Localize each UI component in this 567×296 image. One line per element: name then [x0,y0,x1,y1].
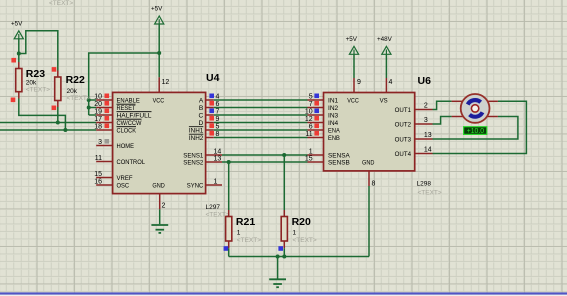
junction R23/CLOCK [63,128,67,132]
svg-text:OUT4: OUT4 [395,151,412,158]
svg-text:INH2: INH2 [189,135,204,142]
U6 reference label [418,75,432,87]
svg-text:SENSB: SENSB [328,160,350,167]
U4 pin 20 stub [96,107,112,109]
svg-text:<TEXT>: <TEXT> [67,95,91,102]
junction RESET [87,106,91,110]
junction R22/CW [56,121,60,125]
svg-text:2: 2 [424,103,428,110]
R23 TEXT label [26,87,50,94]
U4 VCC pin 12 stub [158,77,160,92]
U4 pin 17 state indicator [105,116,110,121]
U4 pin 11 stub [96,161,112,163]
svg-text:CLOCK: CLOCK [117,128,137,135]
svg-text:VCC: VCC [153,98,165,105]
wire OUT1 to motor [433,101,452,109]
bottom window border [0,292,567,296]
U4 pin number 6 [216,101,220,108]
U6 label OUT3 [395,137,412,144]
svg-text:OUT3: OUT3 [395,137,412,144]
wire C-IN3 [214,114,308,116]
R23 pin indicator bottom [11,98,16,103]
svg-text:R20: R20 [292,216,311,228]
U4 pin 3 state indicator [105,139,110,144]
svg-text:20: 20 [94,101,102,108]
U4 label SENS1 [183,153,203,160]
svg-text:1: 1 [214,178,218,185]
svg-text:19: 19 [94,108,102,115]
U6 right pin 2 stub [415,109,433,111]
svg-text:6: 6 [309,123,313,130]
U4 right pin 14 stub [206,154,222,156]
U4 label VCC [153,98,165,105]
resistor R21 [226,217,232,242]
U4 right pin 9 stub [206,122,214,124]
clipped TEXT label top edge [49,0,73,7]
U6 pin number 6 [309,123,313,130]
svg-text:12: 12 [162,79,170,86]
wire INH1-ENA [214,129,308,131]
svg-text:17: 17 [94,116,102,123]
U4 reference label [206,72,220,84]
U4 pin number 20 [94,101,102,108]
U6 pin 11 stub [308,137,324,139]
wire OUT4 to motor [433,101,527,153]
U6 pin 7 state indicator [314,101,319,106]
svg-text:INH1: INH1 [189,128,204,135]
svg-text:11: 11 [305,131,312,138]
svg-text:+5V: +5V [151,6,163,13]
U6 right pin 14 stub [415,153,433,155]
U6 pin 12 state indicator [314,116,319,121]
U4 pin 15 stub [96,177,112,179]
svg-text:1: 1 [237,230,241,237]
U4 label ENABLE [117,98,141,105]
svg-text:GND: GND [152,183,165,190]
U4 label D [199,120,204,127]
motor pins [452,101,498,116]
svg-text:HOME: HOME [117,143,135,150]
U4 right pin 8 stub [206,137,214,139]
U6 label IN3 [328,113,339,120]
U6 label IN1 [328,98,339,105]
svg-text:1: 1 [309,148,313,155]
U4 part type L297 [206,204,221,211]
svg-text:OSC: OSC [117,183,130,190]
U4 pin 19 stub [96,114,112,116]
U4 label A [199,98,204,105]
U4 pin number 2 [162,203,166,210]
U4 right pin 6 stub [206,107,214,109]
svg-text:13: 13 [424,132,432,139]
U4 label RESET [117,104,136,112]
wire SENS1-SENSA [222,154,308,156]
svg-text:A: A [199,98,204,105]
svg-text:OUT1: OUT1 [395,107,412,114]
U4 right pin 13 stub [206,161,222,163]
U4 right pin 4 stub [206,99,214,101]
ground (main) [269,279,286,287]
U6 TEXT label [418,189,442,196]
U4 pin number 1 [214,178,218,185]
svg-text:2: 2 [162,203,166,210]
resistor R23 pins [18,62,20,99]
wire R21 to ground bus [228,248,230,256]
R23 value 20k [26,80,37,87]
U4 pin number 10 [94,93,102,100]
svg-text:9: 9 [357,79,361,86]
R22 label [66,74,85,86]
junction VCC branch [157,51,161,55]
svg-text:C: C [199,113,204,120]
U4 pin number 4 [216,93,220,100]
wire D-IN4 [214,122,308,124]
U4 pin 18 stub [96,129,112,131]
U4 label GND [152,183,165,190]
svg-text:R23: R23 [26,68,45,80]
U6 label VCC [347,98,359,105]
svg-text:+5V: +5V [346,36,358,43]
wire stub HALF/FULL row [89,114,97,116]
svg-text:R21: R21 [236,216,255,228]
U6 pin number 7 [309,101,313,108]
U4 pin 17 stub [96,122,112,124]
svg-text:+48V: +48V [377,36,393,43]
svg-text:15: 15 [94,171,102,178]
U6 label SENSA [328,153,350,160]
junction ground stem [276,255,280,259]
svg-text:11: 11 [95,155,102,162]
U4 pin number 3 [98,139,102,146]
wire +48V to U6 VS [385,55,387,78]
U4 pin number 14 [214,148,222,155]
U4 right pin 7 stub [206,114,214,116]
svg-text:+10.0: +10.0 [467,128,484,135]
U6 label OUT2 [395,122,412,129]
wire VCC branch to ENABLE/RESET/HALF-FULL [89,53,160,115]
wire +5V to U4 VCC pin 12 [158,24,160,77]
wire INH2-ENB [214,137,308,139]
wire R22 bottom to CW net [57,107,59,123]
svg-text:VS: VS [380,98,389,105]
svg-text:10: 10 [94,93,102,100]
wire R23 bottom to CLOCK net [19,99,66,131]
U6 label IN4 [328,120,339,127]
resistor R23 [16,69,22,92]
svg-text:IN4: IN4 [328,120,339,127]
U4 pin 10 state indicator [105,94,110,99]
U6 pin 10 stub [308,114,324,116]
U4 label SYNC [187,183,204,190]
svg-text:VCC: VCC [347,98,359,105]
U4 right pin 5 stub [206,129,214,131]
svg-text:SENS1: SENS1 [183,153,203,160]
U4 pin 8 state indicator [209,131,214,136]
svg-text:14: 14 [214,148,222,155]
svg-text:U4: U4 [206,72,220,84]
wire +5V to R22 top [19,31,58,71]
junction R20/ground bus [282,255,286,259]
U4 pin 4 state indicator [209,94,214,99]
U4 pin 16 stub [96,184,112,186]
svg-text:VREF: VREF [117,175,133,182]
motor rpm display [464,127,487,136]
wire SENS2 to R21 [228,162,230,210]
U6 VS pin 4 stub [385,78,387,93]
U6 label OUT1 [395,107,412,114]
R21 TEXT label [237,237,261,244]
svg-text:16: 16 [94,178,102,185]
wire +5V to U6 VCC [353,55,355,78]
U4 pin 10 stub [96,99,112,101]
U4 pin number 7 [216,108,220,115]
U4 pin 19 state indicator [105,109,110,114]
svg-text:R22: R22 [66,74,85,86]
U6 label OUT4 [395,151,412,158]
U4 label INH2 [189,134,204,142]
svg-text:3: 3 [98,139,102,146]
svg-text:<TEXT>: <TEXT> [237,237,261,244]
U4 label C [199,113,204,120]
power +48V (U6 VS) [377,36,393,55]
op-amp U6 body (L298) [324,93,415,171]
U6 pin 5 stub [308,99,324,101]
svg-text:ENB: ENB [328,135,340,142]
R21 value 1 [237,230,241,237]
U4 GND pin 2 stub [159,194,161,210]
svg-text:15: 15 [305,155,313,162]
U6 pin 15 stub [308,161,324,163]
U6 label ENA [328,128,340,135]
svg-text:L297: L297 [206,204,221,211]
U6 part type L298 [417,180,432,187]
U6 pin 10 state indicator [314,109,319,114]
U6 pin 1 stub [308,154,324,156]
U4 pin number 15 [94,171,102,178]
wire CW/CCW net from left edge [0,122,96,124]
U4 pin number 11 [95,155,102,162]
U6 pin number 9 [357,79,361,86]
U6 pin number 1 [309,148,313,155]
svg-text:CONTROL: CONTROL [117,159,146,166]
U4 pin number 5 [216,123,220,130]
U4 pin number 16 [94,178,102,185]
R21 pin indicator bottom [224,246,229,251]
svg-text:3: 3 [424,117,428,124]
U4 pin number 18 [94,123,102,130]
svg-text:D: D [199,120,204,127]
wire B-IN2 [214,107,308,109]
svg-text:OUT2: OUT2 [395,122,412,129]
U4 pin 5 state indicator [209,124,214,129]
U4 pin 20 state indicator [105,101,110,106]
U4 label HALF/FULL [117,112,152,120]
svg-text:<TEXT>: <TEXT> [418,189,442,196]
U4 label HOME [117,143,135,150]
U6 label ENB [328,135,340,142]
U4 label OSC [117,183,130,190]
resistor R20 pins [283,210,285,248]
U6 pin number 13 [424,132,432,139]
svg-text:14: 14 [424,147,432,154]
U6 pin 12 stub [308,122,324,124]
wire +5V stem to R23 [18,38,20,62]
R20 TEXT label [293,237,317,244]
junction +5V branch [17,52,21,56]
resistor R21 pins [228,210,230,248]
U6 pin number 11 [305,131,312,138]
U4 pin 6 state indicator [209,101,214,106]
U6 pin number 5 [309,93,313,100]
U6 pin number 2 [424,103,428,110]
U4 label CW/CCW [117,119,143,127]
U4 pin 7 state indicator [209,109,214,114]
U6 label IN2 [328,105,339,112]
R23 label [26,68,45,80]
U6 pin number 15 [305,155,313,162]
svg-text:10: 10 [305,108,313,115]
R21 label [236,216,255,228]
R23 pin indicator top [11,58,16,63]
svg-text:CW/CCW: CW/CCW [117,120,143,127]
U6 right pin 3 stub [415,123,433,125]
wire ground stem [277,257,279,280]
U4 label B [199,105,204,112]
wire CLOCK net from left edge [0,129,96,131]
svg-text:IN1: IN1 [328,98,339,105]
U6 pin number 3 [424,117,428,124]
wire U6 GND down [368,186,370,257]
wire OUT3 to motor [433,117,518,140]
U6 pin 5 state indicator [314,94,319,99]
svg-text:18: 18 [94,123,102,130]
U6 pin number 8 [372,180,376,187]
U4 label INH1 [189,127,204,135]
wire stub ENABLE row [89,99,97,101]
svg-text:8: 8 [372,180,376,187]
U6 pin number 10 [305,108,313,115]
resistor R22 pins [57,71,59,108]
junction SENS2/R21 [227,160,231,164]
U4 pin number 8 [216,131,220,138]
svg-text:L298: L298 [417,180,432,187]
svg-text:ENABLE: ENABLE [117,98,141,105]
svg-text:ENA: ENA [328,128,340,135]
svg-text:12: 12 [305,116,313,123]
R22 pin indicator top [52,67,57,72]
svg-text:IN2: IN2 [328,105,339,112]
wire SENS1 to R20 [283,155,285,210]
svg-text:1: 1 [293,230,297,237]
resistor R22 [55,77,61,101]
svg-text:RESET: RESET [117,105,136,112]
U6 label GND [362,160,375,167]
R22 TEXT label [67,95,91,102]
R20 label [292,216,311,228]
svg-text:7: 7 [309,101,313,108]
resistor R20 [281,217,287,242]
U4 right pin 1 stub [206,184,222,186]
U4 label SENS2 [183,160,203,167]
U4 pin number 17 [94,116,102,123]
U6 pin 6 state indicator [314,124,319,129]
svg-text:B: B [199,105,204,112]
U4 TEXT label [206,211,230,218]
R22 pin indicator bottom [52,106,57,111]
U4 pin 3 stub [96,145,112,147]
U4 pin 9 state indicator [209,116,214,121]
U6 pin number 14 [424,147,432,154]
svg-text:IN3: IN3 [328,113,339,120]
power +5V (U4 VCC) [151,6,164,25]
junction ENABLE [87,98,91,102]
U6 pin number 4 [389,79,393,86]
U6 pin 11 state indicator [314,131,319,136]
R22 value 20k [67,88,78,95]
motor M1 (stepper) [461,94,490,123]
svg-text:<TEXT>: <TEXT> [26,87,50,94]
svg-text:<TEXT>: <TEXT> [293,237,317,244]
wire R20 to ground bus [283,248,285,256]
U6 GND pin 8 stub [368,171,370,186]
svg-text:+5V: +5V [11,20,23,27]
U6 pin number 12 [305,116,313,123]
U4 pin 18 state indicator [105,124,110,129]
svg-text:HALF/FULL: HALF/FULL [117,113,152,120]
op-amp U4 body (L297) [113,92,206,193]
svg-text:4: 4 [389,79,393,86]
svg-text:GND: GND [362,160,375,167]
power +5V (U6 VCC) [346,36,359,55]
svg-text:<TEXT>: <TEXT> [49,0,73,7]
R20 value 1 [293,230,297,237]
U6 right pin 13 stub [415,138,433,140]
svg-text:5: 5 [309,93,313,100]
U6 pin 7 stub [308,107,324,109]
R20 pin indicator bottom [278,246,283,251]
wire A-IN1 [214,99,308,101]
wire ground bus [229,256,369,258]
U6 label SENSB [328,160,350,167]
U4 label CLOCK [117,127,137,135]
U4 pin number 12 [162,79,170,86]
power +5V (R23/R22 supply) [11,20,23,39]
U4 label CONTROL [117,159,146,166]
U6 pin 6 stub [308,129,324,131]
wire OUT2 to motor [433,117,452,125]
svg-text:SENSA: SENSA [328,153,350,160]
svg-text:SENS2: SENS2 [183,160,203,167]
svg-text:SYNC: SYNC [187,183,204,190]
U6 label VS [380,98,389,105]
wire U4 GND pin to ground [159,209,161,224]
U4 pin number 9 [216,116,220,123]
junction SENS1/R20 [282,153,286,157]
wire stub RESET row [89,107,97,109]
ground (U4 GND) [151,225,168,233]
svg-text:U6: U6 [418,75,432,87]
U4 pin number 19 [94,108,102,115]
wire SENS2-SENSB [222,161,308,163]
svg-text:13: 13 [214,155,222,162]
U4 label VREF [117,175,133,182]
U4 pin number 13 [214,155,222,162]
U6 VCC pin 9 stub [353,78,355,93]
